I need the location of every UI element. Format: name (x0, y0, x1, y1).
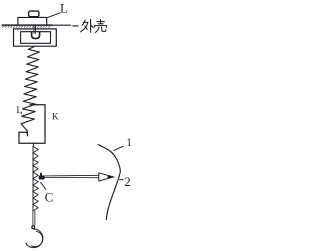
pen arrow tip (dark) (108, 175, 114, 179)
ceiling line end dash (73, 25, 79, 27)
upper box (mount above ceiling line) (18, 17, 47, 25)
drum arc 1 (98, 145, 120, 220)
U-cup inside inner box (32, 32, 40, 39)
rod into cup (34, 26, 36, 34)
ceiling hatched line (2, 24, 52, 26)
frame K (19, 105, 45, 143)
inner box (21, 32, 51, 44)
svg-text:K: K (52, 112, 59, 122)
pointer rod sawtooth (33, 146, 38, 211)
hook outer curve (26, 229, 43, 248)
comma after small L (20, 112, 22, 113)
ceiling hatch ticks (3, 26, 50, 28)
hook inner curve (31, 231, 42, 246)
svg-text:L: L (60, 1, 68, 16)
pen clamp blob (40, 173, 42, 176)
link frame to pointer rod (32, 143, 34, 146)
svg-text:1: 1 (126, 137, 132, 149)
leader dash to label 2 (120, 179, 124, 181)
hook knob (32, 226, 35, 229)
leader line to label C (41, 182, 46, 189)
cap L (small knob box on top) (29, 11, 39, 17)
pointer rod rail (32, 146, 34, 211)
hook rod (double line) (33, 211, 35, 225)
leader line to label L (47, 13, 60, 18)
svg-text:2: 2 (124, 174, 131, 189)
svg-text:C: C (45, 190, 54, 205)
big hanging box (outer) (14, 29, 57, 46)
pen arrow head (99, 173, 114, 181)
label 外壳 (casing) : hand-drawn strokes (81, 19, 107, 32)
pen body (44, 175, 99, 177)
svg-text:L: L (16, 106, 22, 116)
spring (21, 47, 39, 135)
leader tick to label 1 (114, 146, 123, 150)
